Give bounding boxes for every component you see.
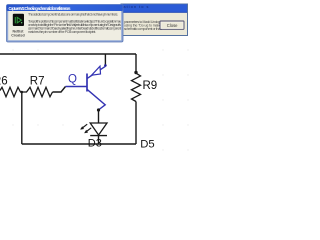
wire: LED cathode to bottom rail bbox=[98, 136, 100, 144]
svg-text:Close: Close bbox=[167, 23, 178, 28]
svg-text:The selected component include: The selected component includes one or m… bbox=[28, 12, 118, 16]
svg-text:CaptureW1: Checking schematic: CaptureW1: Checking schematic for netlis… bbox=[9, 6, 72, 11]
svg-text:matches the pin number of the: matches the pin number of the PCB compon… bbox=[28, 30, 96, 34]
LED arrow 2 bbox=[84, 128, 91, 133]
resistor R9 bbox=[132, 73, 141, 102]
node: collector pin dot bbox=[104, 64, 107, 67]
wire: bottom rail bbox=[22, 143, 136, 145]
dialog 1 body text bbox=[28, 12, 121, 34]
svg-text:ation to s: ation to s bbox=[124, 5, 149, 9]
wire: R7 to base (with jog) bbox=[53, 87, 66, 93]
grid dots bbox=[12, 49, 188, 150]
dialog 2 Close button bbox=[160, 21, 184, 29]
node: junction dot at R9 top bbox=[134, 71, 137, 74]
wire: R9 bottom lead bbox=[135, 102, 137, 145]
wire: top rail bbox=[0, 53, 136, 55]
node: junction R6/R7 bbox=[21, 92, 23, 144]
svg-text:D3: D3 bbox=[88, 138, 102, 150]
diode D3 (LED) triangle bbox=[90, 123, 107, 135]
diode D3 cathode bar bbox=[90, 135, 107, 137]
wire: collector lead from top rail bbox=[104, 54, 106, 65]
dialog 1 icon caption bbox=[11, 30, 24, 38]
resistor R7 bbox=[27, 87, 53, 96]
svg-text:R6: R6 bbox=[0, 76, 8, 88]
transistor Q collector diagonal bbox=[87, 66, 105, 78]
wire: top rail corner down to R9 bbox=[135, 54, 137, 73]
svg-text:Created: Created bbox=[11, 34, 24, 38]
wire: base wire (blue) bbox=[66, 86, 87, 88]
dialog 1 icon bbox=[13, 14, 24, 26]
svg-text:R7: R7 bbox=[30, 76, 45, 88]
svg-text:R9: R9 bbox=[143, 80, 158, 92]
svg-text:schematic component or that t: schematic component or that t bbox=[124, 27, 162, 31]
svg-text:D5: D5 bbox=[140, 138, 154, 150]
transistor Q arrow (hollow) bbox=[92, 66, 101, 75]
LED arrow 1 bbox=[80, 124, 87, 129]
node: emitter junction dot bbox=[97, 108, 100, 111]
svg-text:Q: Q bbox=[68, 73, 77, 85]
dialog 2 (background window) bbox=[121, 4, 188, 36]
transistor Q base bar bbox=[86, 74, 88, 92]
dialog 1 (foreground message box) bbox=[7, 5, 124, 43]
wire: emitter to LED bbox=[98, 110, 100, 123]
resistor R6 (cut off at left edge) bbox=[0, 87, 27, 96]
transistor Q emitter diagonal bbox=[87, 89, 105, 110]
